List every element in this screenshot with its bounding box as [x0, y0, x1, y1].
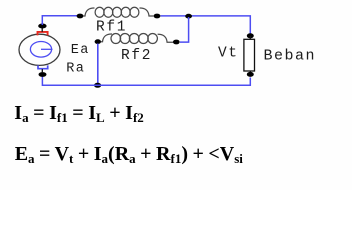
node: Beban bottom terminal — [247, 72, 254, 77]
node: armature - terminal — [39, 72, 47, 77]
brush bottom (blue) — [38, 65, 48, 68]
node: Rf2 right end — [173, 40, 180, 45]
svg-text:Rf2: Rf2 — [121, 48, 152, 64]
brush top (red) — [38, 32, 48, 36]
resistor Beban — [244, 39, 255, 71]
wire: stub dot to resistor top (black) — [249, 36, 251, 39]
svg-text:Ra: Ra — [66, 62, 85, 77]
node: Rf2 left end — [95, 39, 101, 44]
wire: bottom brush to - terminal (black stub) — [41, 69, 43, 73]
node: Rf1 left end — [77, 14, 84, 19]
wire: top brush to + terminal (black stub) — [41, 27, 43, 32]
wire: + terminal up and right to Rf1 (blue) — [42, 16, 79, 25]
inductor Rf2 — [101, 34, 173, 44]
svg-text:Rf1: Rf1 — [96, 19, 127, 35]
wire: Rf1 to Beban top corner (blue) — [161, 16, 251, 34]
wire: resistor bottom to dot (black) — [249, 71, 251, 75]
wire: junction down to Rf2 right end (blue) — [180, 17, 189, 42]
dc machine G1 armature body — [19, 34, 60, 65]
node: Rf1 right end — [154, 14, 161, 19]
svg-text:Vt: Vt — [218, 46, 239, 62]
wire: bottom rail (blue) — [42, 77, 250, 86]
node: junction of Rf2 branch on top wire — [185, 14, 192, 19]
svg-text:Ea: Ea — [71, 43, 90, 58]
equation line 1: Ia = If1 = IL + If2 — [14, 103, 144, 123]
node: Beban top terminal — [247, 33, 254, 38]
wire: Rf2 left end down to bottom rail (blue) — [97, 44, 99, 86]
node: junction on bottom rail — [94, 83, 101, 88]
node: armature + terminal — [38, 24, 46, 29]
dc machine G1 rotor symbol (blue circle with radius line) — [30, 42, 52, 58]
svg-text:Beban: Beban — [264, 48, 317, 65]
inductor Rf1 — [83, 7, 154, 17]
equation line 2: Ea = Vt + Ia(Ra + Rf1) + <Vsi — [15, 144, 243, 164]
